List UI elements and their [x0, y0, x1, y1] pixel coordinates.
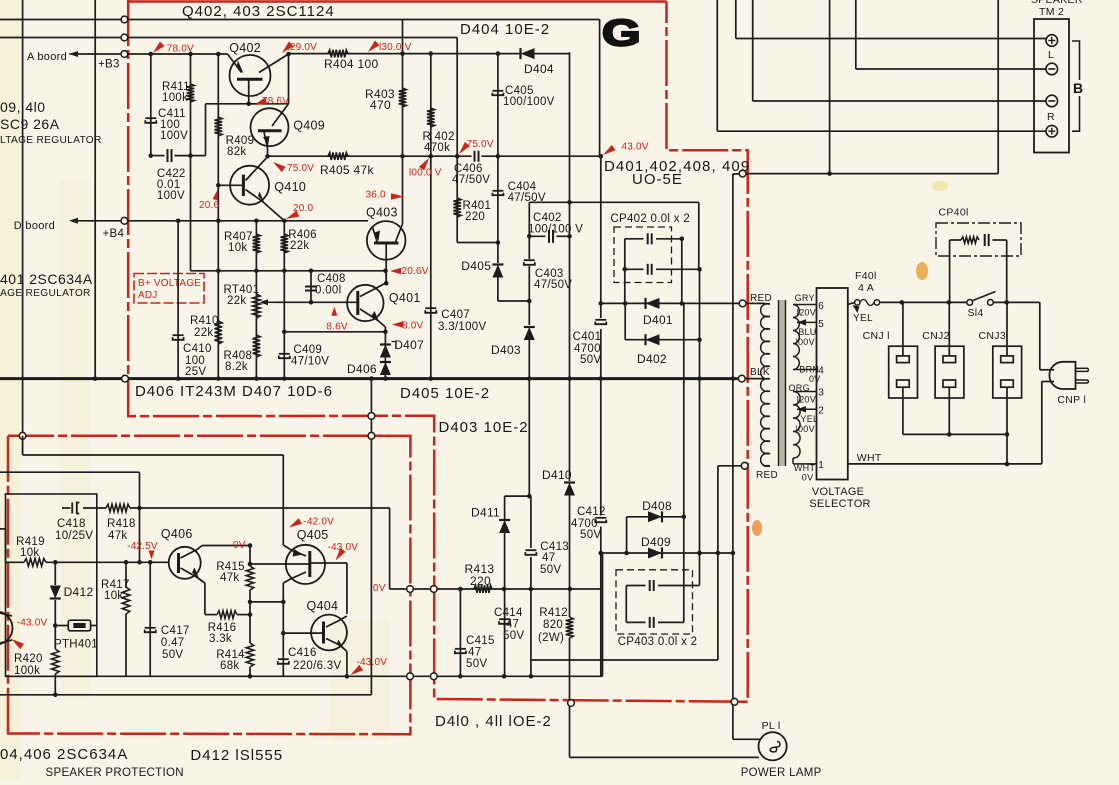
label C412 [571, 506, 606, 541]
junction dots Q405 col [281, 600, 286, 636]
svg-text:D4l0 , 4ll lOE-2: D4l0 , 4ll lOE-2 [435, 713, 552, 730]
svg-text:75.0V: 75.0V [287, 163, 314, 174]
capacitor C408 [305, 287, 317, 291]
node circle v1 red crossing [19, 432, 26, 439]
svg-text:RED: RED [756, 470, 778, 481]
svg-text:YEL: YEL [853, 313, 873, 324]
svg-text:ADJ: ADJ [138, 290, 158, 301]
transformer primary winding [761, 303, 770, 466]
svg-text:20.0: 20.0 [293, 203, 314, 214]
label Q402 [229, 41, 261, 55]
svg-text:PL l: PL l [762, 720, 781, 732]
transistor Q403 [367, 156, 406, 283]
red box B+ VOLTAGE ADJ [134, 274, 204, 304]
wire rail top-2 [0, 37, 457, 39]
terminal L- [1046, 63, 1058, 75]
label R410 [190, 315, 219, 339]
wire main bus 0V [0, 377, 739, 380]
node circle rail2 boundary [121, 34, 128, 41]
connector CNJ3 box [993, 346, 1022, 398]
wire CNJ3 top [1006, 302, 1008, 356]
wire x683 vertical [683, 303, 685, 516]
resistor R403 [399, 88, 407, 107]
junction dot jog [527, 494, 532, 499]
logo G [602, 13, 641, 54]
label R409 [226, 135, 255, 158]
svg-text:D401: D401 [643, 313, 673, 327]
node circle RED bottom [741, 462, 748, 469]
capacitor C417 [145, 628, 156, 632]
svg-text:D412 lSl555: D412 lSl555 [190, 747, 283, 764]
svg-text:47: 47 [542, 552, 555, 564]
svg-text:100V: 100V [160, 130, 188, 142]
wire R401 column [457, 156, 498, 242]
svg-text:25V: 25V [185, 366, 206, 378]
label D401 [643, 313, 673, 327]
junction dots bottom wire [458, 674, 533, 679]
svg-text:l20V: l20V [797, 395, 816, 405]
wire S14 to plug top [1040, 302, 1054, 369]
junction dots base line [53, 560, 153, 565]
svg-text:20.6V: 20.6V [402, 266, 429, 277]
label CNJ1 [863, 330, 890, 342]
resistor R402 [427, 108, 435, 127]
svg-text:D412: D412 [64, 585, 94, 599]
resistor R413 [474, 585, 492, 593]
svg-text:5: 5 [818, 319, 824, 330]
label R401 [463, 200, 492, 223]
label Q401 [389, 291, 421, 305]
transformer tap pin5 [797, 319, 817, 325]
wire y660 line [531, 466, 718, 660]
svg-text:SC9 26A: SC9 26A [0, 116, 60, 132]
svg-text:C410: C410 [183, 343, 212, 355]
switch S14 [967, 292, 996, 306]
svg-text:WHT: WHT [857, 452, 882, 464]
svg-text:10k: 10k [228, 242, 247, 254]
wire R414 column [249, 615, 251, 677]
label R413 [465, 562, 495, 588]
diode D409 [648, 548, 662, 559]
wire CNJ2 top [948, 302, 950, 356]
connector CNJ3 slots [1001, 356, 1014, 387]
hook mark D406 [392, 342, 397, 349]
wire y472 line [0, 472, 140, 562]
svg-text:0.00l: 0.00l [315, 285, 341, 297]
svg-text:-43 0V: -43 0V [328, 542, 359, 553]
label C416 [288, 647, 341, 672]
label R414 [216, 649, 245, 672]
svg-text:D403 10E-2: D403 10E-2 [439, 419, 529, 436]
svg-text:(2W): (2W) [538, 632, 564, 644]
red 75.0V left [273, 162, 314, 174]
wire C402 line [529, 235, 569, 237]
svg-text:4 A: 4 A [858, 282, 874, 294]
capacitor C404 [492, 191, 503, 195]
red -42.0V [289, 517, 334, 528]
label C405 [503, 85, 555, 108]
wire CP402 right leg [681, 239, 683, 304]
label LTAGE REGULATOR [0, 135, 102, 146]
resistor R412 [566, 617, 574, 638]
label CNJ2 [922, 330, 949, 342]
connector CNJ1 slots [897, 356, 910, 387]
svg-text:6: 6 [818, 301, 824, 312]
label SPEAKER PROTECTION [46, 767, 184, 779]
svg-text:0V: 0V [373, 583, 386, 594]
svg-text:RED: RED [750, 293, 772, 304]
junction dots R416 line [248, 562, 253, 679]
wire C405 column [497, 54, 499, 157]
label C401 [573, 331, 602, 366]
label CP401 [939, 207, 969, 219]
wire C413 column [530, 496, 532, 676]
svg-text:22k: 22k [194, 327, 213, 339]
title D401,402,408,409 [604, 158, 750, 188]
red 8.6V [326, 307, 348, 333]
node circle BLK [738, 375, 745, 382]
red 78.6V [254, 96, 289, 107]
label C410 [183, 343, 212, 378]
svg-text:22k: 22k [290, 240, 309, 252]
label PTH401 [54, 639, 98, 651]
wire CP401 left leg [949, 240, 951, 302]
svg-text:CNJ3: CNJ3 [979, 330, 1006, 342]
label C404 [508, 181, 546, 204]
svg-text:D408: D408 [642, 499, 672, 513]
svg-text:L: L [1048, 49, 1054, 61]
label ORG [789, 383, 810, 393]
wire speaker L+ [736, 0, 1046, 39]
junction dots bus left [93, 376, 388, 381]
label Q404 [307, 599, 339, 613]
wire CNJ1 top [902, 302, 904, 356]
svg-text:C409: C409 [293, 344, 322, 356]
resistor R418 [106, 504, 130, 512]
svg-text:68k: 68k [220, 660, 239, 672]
junction dots y270 [216, 269, 313, 274]
svg-text:47k: 47k [108, 530, 127, 542]
label B [1073, 80, 1083, 96]
label SC9 26A [0, 116, 60, 132]
svg-text:SELECTOR: SELECTOR [809, 498, 871, 510]
label BLK [750, 367, 770, 378]
label D board [14, 220, 55, 232]
wire CP403 cap1 line [626, 553, 699, 586]
resistor R411 [187, 84, 195, 102]
svg-text:BLU: BLU [798, 327, 816, 337]
wire v1 to Q405 rail [23, 436, 284, 545]
red 20.6V [390, 266, 429, 277]
label POWER LAMP [741, 767, 822, 779]
svg-text:D405: D405 [461, 259, 491, 273]
resistor R409 [215, 117, 223, 136]
capacitor CP401-C [985, 234, 989, 246]
wire speaker R+ [717, 0, 1046, 131]
label CP402 [610, 213, 690, 225]
svg-text:l30.0 V: l30.0 V [379, 42, 412, 53]
resistor R401 [453, 198, 461, 217]
wire D411 column [505, 496, 530, 676]
resistor R408 [253, 335, 261, 357]
label WHT [857, 452, 882, 464]
wire CP403 right leg up [683, 517, 685, 623]
node circle lamp wire red crossing [731, 698, 738, 705]
svg-text:50V: 50V [466, 658, 487, 670]
wire D402 branch [625, 303, 699, 339]
capacitor C415 [455, 649, 466, 653]
transistor Q402 [228, 54, 289, 104]
svg-text:Q402: Q402 [229, 41, 261, 55]
svg-text:3.3k: 3.3k [209, 633, 232, 645]
red -43.0V q405 [328, 542, 359, 561]
resistor R407 [253, 234, 261, 253]
transistor Q405 [283, 545, 325, 584]
svg-text:GRY: GRY [795, 293, 815, 303]
svg-text:0V: 0V [233, 540, 246, 551]
resistor R415 [246, 566, 254, 590]
wire R418 line [62, 508, 390, 589]
svg-text:C402: C402 [533, 212, 562, 224]
svg-text:78.0V: 78.0V [167, 44, 194, 55]
label D411 [471, 506, 500, 520]
svg-text:50V: 50V [503, 630, 524, 642]
transformer secondary windings [793, 305, 800, 459]
red 43.0V [603, 142, 649, 156]
svg-text:C412: C412 [577, 506, 606, 518]
svg-text:470k: 470k [424, 142, 450, 154]
resistor R420 [52, 649, 60, 674]
capacitor CP403-a [650, 580, 654, 591]
red 8.0V [392, 321, 424, 332]
svg-text:+B3: +B3 [98, 59, 120, 71]
resistor R406 [281, 234, 289, 253]
label 0V mid [809, 374, 821, 384]
svg-text:F40l: F40l [855, 270, 877, 282]
CP403 dashed box [616, 570, 693, 634]
title D410 411 10E-2 [435, 713, 552, 730]
transistor Q404 [283, 615, 347, 652]
svg-text:AGE REGULATOR: AGE REGULATOR [0, 288, 91, 299]
junction dots 129V line [400, 51, 500, 56]
junction dots +B3 row [149, 52, 291, 57]
fuse F401 [855, 299, 880, 305]
svg-text:8.6V: 8.6V [326, 322, 348, 333]
title 04 406 2SC634A [0, 746, 128, 763]
svg-text:820: 820 [543, 619, 563, 631]
label C413 [540, 541, 569, 576]
svg-text:D406: D406 [347, 362, 377, 376]
junction dots C406 line [265, 154, 603, 159]
svg-text:Q405: Q405 [297, 528, 329, 542]
resistor R414 [246, 643, 254, 667]
label R406 [288, 229, 317, 252]
resistor R410 [215, 321, 223, 344]
junction dots R413 line [458, 587, 572, 592]
transformer tap pin1 [793, 458, 817, 464]
svg-text:R404 100: R404 100 [324, 57, 378, 71]
terminal box TM2 [1034, 19, 1069, 153]
wire x529 below bus [528, 379, 530, 497]
transformer tap pin4 [793, 369, 817, 371]
wire Q401 base line [274, 301, 358, 303]
svg-text:l00V: l00V [796, 424, 815, 434]
label R405 47k [320, 163, 374, 177]
diode D407 [380, 345, 391, 358]
svg-text:l47: l47 [503, 619, 519, 631]
svg-text:82k: 82k [227, 146, 246, 158]
diode D401 [646, 298, 660, 309]
wire C404/D405 column [498, 156, 529, 301]
wire C422 link [151, 104, 206, 156]
svg-text:+B4: +B4 [103, 228, 125, 240]
connector CNJ2 slots [943, 356, 956, 387]
transformer tap pin3 [793, 391, 817, 393]
junction dot R401 bottom [496, 240, 501, 245]
svg-text:A boord: A boord [27, 51, 67, 63]
wire BLK to primary [745, 378, 763, 380]
node circle x569 red crossing [568, 700, 575, 707]
svg-text:8.2k: 8.2k [225, 361, 248, 373]
capacitor C412 [595, 518, 606, 522]
connector CNJ2 box [935, 346, 964, 398]
diode D405 [492, 265, 503, 278]
svg-text:D402: D402 [637, 352, 667, 366]
wire R411 column [190, 54, 192, 271]
wire speaker L- [856, 0, 1046, 69]
diode D412 [50, 586, 61, 599]
svg-text:C408: C408 [317, 273, 346, 285]
terminal R- [1046, 95, 1058, 107]
node circle +B4 boundary [121, 217, 128, 224]
red -42.5V [127, 541, 158, 560]
transformer tap pin2 [797, 406, 817, 412]
svg-text:D411: D411 [471, 506, 500, 520]
label R408 [224, 350, 253, 373]
junction dot Q404 emitter [248, 543, 350, 678]
svg-text:D409: D409 [641, 535, 671, 549]
label R417 [101, 579, 130, 602]
red boundary speaker protection section [7, 436, 410, 734]
capacitor C403 [524, 260, 535, 265]
node circles R413 red crossings [407, 586, 438, 593]
label +B4 [103, 228, 125, 240]
svg-text:2: 2 [818, 406, 824, 417]
svg-text:l00.0 V: l00.0 V [409, 168, 442, 179]
capacitor C401 [595, 320, 606, 324]
label C417 [161, 625, 190, 661]
svg-text:-42.0V: -42.0V [303, 517, 334, 528]
capacitor CP402-a [648, 233, 652, 244]
wire bottom wire [6, 553, 603, 676]
label R416 [208, 622, 237, 645]
label D407 [394, 338, 424, 352]
svg-text:3: 3 [818, 388, 824, 399]
red 20.0 [286, 203, 314, 219]
label R419 [16, 536, 45, 559]
svg-text:47/50V: 47/50V [534, 279, 572, 291]
label R418 [107, 518, 136, 542]
wire C410 column [177, 221, 179, 379]
label Q406 [161, 527, 193, 541]
junction dots common vertical [731, 376, 736, 381]
label S14 [968, 307, 984, 319]
capacitor C411 [145, 118, 156, 123]
label C422 [157, 168, 186, 202]
label C415 [466, 635, 495, 670]
svg-text:l00V: l00V [796, 337, 815, 347]
transistor Q407 partial at left edge [0, 612, 13, 645]
svg-text:C418: C418 [57, 518, 86, 530]
svg-text:C414: C414 [494, 607, 523, 619]
label R415 [216, 561, 245, 584]
wire y695 line [0, 694, 371, 696]
label C411 [158, 108, 188, 142]
label R402 [423, 131, 455, 154]
label YEL tap [800, 414, 818, 424]
title D406 IT243M D407 10D-6 [135, 383, 333, 400]
wire RED top to primary [746, 302, 764, 304]
wire x371 vertical [370, 379, 372, 695]
svg-text:04,406 2SC634A: 04,406 2SC634A [0, 746, 128, 763]
svg-text:D404 10E-2: D404 10E-2 [460, 21, 550, 38]
label 120V lower [797, 395, 816, 405]
label AGE REGULATOR [0, 288, 91, 299]
red 78.0V [153, 42, 194, 55]
label Q409 [293, 119, 325, 133]
terminal R+ [1046, 125, 1058, 137]
wire C417 column [149, 562, 151, 676]
red 20.6 small [199, 190, 220, 211]
resistor R417 [122, 587, 130, 614]
red jog of box bottom-left [371, 435, 411, 437]
svg-text:R405 47k: R405 47k [320, 163, 374, 177]
svg-text:401 2SC634A: 401 2SC634A [0, 271, 93, 287]
resistor CP401-R [961, 237, 979, 243]
svg-text:VOLTAGE: VOLTAGE [812, 486, 864, 498]
wire x600 vertical [600, 20, 603, 676]
red label B+ VOLTAGE ADJ [138, 278, 201, 301]
capacitor C410 [173, 335, 184, 340]
node circle RED top [739, 300, 746, 307]
svg-text:-43.0V: -43.0V [17, 618, 48, 629]
svg-text:D boord: D boord [14, 220, 55, 232]
svg-text:CP402 0.0l x 2: CP402 0.0l x 2 [610, 213, 690, 225]
node circles bottom wire red crossings [407, 673, 438, 680]
capacitor C422 [168, 149, 172, 162]
capacitor CP403-b [650, 617, 654, 628]
svg-text:36.0: 36.0 [366, 190, 387, 201]
svg-text:0.47: 0.47 [161, 637, 185, 649]
title D412 IS1555 [190, 747, 283, 764]
transformer tap pin6 [793, 304, 817, 306]
label R404 100 [324, 57, 378, 71]
wire Q405 emitter link [250, 601, 283, 603]
red 0V frag1 [233, 540, 246, 551]
wire Q405 base through [310, 563, 347, 614]
resistor R404 [328, 50, 348, 58]
wire C415 column [459, 589, 461, 676]
diode D410 [564, 483, 575, 496]
wire speaker R- [753, 0, 1046, 101]
wire Q402 collector to 129V node [288, 54, 290, 104]
red -43.0V left [12, 618, 48, 650]
label BRN [799, 364, 819, 374]
label RT401 [224, 284, 260, 307]
svg-text:B+ VOLTAGE: B+ VOLTAGE [138, 278, 201, 289]
wire common down to lamp [733, 174, 761, 739]
junction dot Q403 emitter-line [383, 269, 388, 286]
